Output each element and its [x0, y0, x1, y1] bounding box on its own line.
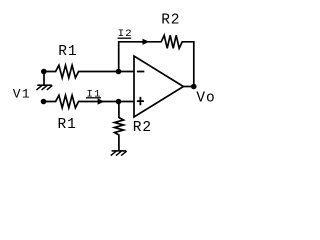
arrow current I2 [143, 39, 150, 45]
arrow current I1 [98, 98, 105, 104]
wire top input with resistor R1 zigzag [44, 65, 134, 78]
svg-text:Vo: Vo [196, 90, 215, 106]
node V1 top terminal dot [41, 69, 47, 75]
svg-text:R1: R1 [58, 44, 77, 60]
op-amp plus input sign [137, 97, 144, 105]
node non-inverting input junction dot [116, 99, 122, 105]
label I2 underline [118, 37, 132, 39]
op-amp minus input sign [137, 71, 144, 73]
node V1 bottom terminal dot [41, 99, 47, 105]
ground top-left [37, 84, 52, 86]
wire V1 top terminal ground stub [43, 72, 45, 86]
svg-text:R2: R2 [161, 13, 180, 29]
svg-text:V1: V1 [13, 87, 31, 102]
svg-text:I1: I1 [87, 88, 102, 100]
resistor R2 vertical to ground [115, 102, 124, 151]
svg-text:R2: R2 [133, 120, 152, 136]
node inverting input junction dot [116, 69, 122, 75]
op-amp U1 triangle [134, 56, 183, 117]
node Vo output dot [191, 84, 197, 90]
wire feedback loop [119, 35, 194, 86]
wire op-amp output [183, 86, 193, 88]
wire bottom input with resistor R1 zigzag [44, 95, 135, 108]
svg-text:R1: R1 [58, 117, 77, 133]
ground bottom [112, 150, 127, 152]
label I1 underline [86, 97, 101, 99]
